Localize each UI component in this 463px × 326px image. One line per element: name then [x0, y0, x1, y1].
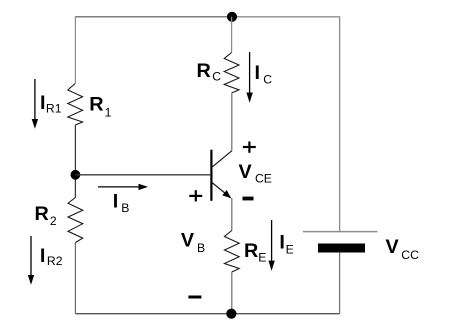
svg-text:R: R [197, 60, 211, 82]
label I_B [113, 191, 130, 215]
battery V_CC positive plate [303, 231, 378, 233]
svg-text:V: V [181, 229, 195, 251]
resistor RC [224, 53, 239, 94]
wire left rail lower (R2 to bottom rail) [74, 243, 76, 314]
transistor Q1 base bar [210, 150, 212, 201]
label V_CE [239, 161, 272, 186]
resistor RE [224, 231, 239, 273]
resistor R2 [68, 198, 83, 243]
junction dot base node [71, 170, 81, 180]
label minus at emitter [243, 197, 254, 201]
label I_R1 [40, 92, 62, 116]
junction dot top node [227, 12, 237, 22]
battery V_CC negative plate [318, 244, 365, 253]
label I_R2 [40, 245, 63, 268]
wire top rail right segment [232, 16, 340, 18]
transistor Q1 emitter lead with arrow [212, 183, 231, 198]
svg-text:CC: CC [401, 248, 419, 262]
label V_B [181, 229, 205, 255]
svg-text:I: I [279, 232, 285, 254]
current arrow I_R1 [32, 79, 38, 129]
wire middle rail top (top node to RC) [231, 17, 233, 53]
svg-text:CE: CE [255, 171, 272, 185]
label RC [197, 60, 222, 84]
label I_C [255, 62, 273, 87]
svg-text:R: R [89, 94, 103, 116]
resistor R1 [68, 84, 83, 126]
svg-text:R1: R1 [46, 101, 62, 115]
svg-text:2: 2 [50, 214, 57, 228]
transistor Q1 collector lead [212, 151, 231, 167]
wire base (node to transistor) [75, 174, 210, 176]
svg-text:V: V [239, 161, 253, 183]
label RE [244, 240, 266, 265]
wire emitter vertical [231, 198, 233, 231]
current arrow I_C [246, 52, 252, 103]
label R1 [89, 94, 111, 120]
label minus at bottom (V_B reference) [188, 296, 201, 299]
label R2 [35, 203, 57, 228]
svg-text:R: R [35, 203, 49, 225]
svg-text:I: I [40, 92, 46, 114]
label I_E [279, 232, 293, 257]
svg-text:B: B [197, 241, 205, 255]
wire right rail lower (battery to bottom rail) [339, 253, 341, 314]
wire top rail left segment [75, 16, 232, 18]
label V_CC [386, 236, 420, 262]
wire right rail upper (top rail to battery) [339, 16, 341, 231]
svg-text:E: E [258, 250, 266, 264]
current arrow I_R2 [28, 236, 34, 285]
svg-text:V: V [386, 236, 400, 258]
label plus at base [189, 190, 202, 201]
svg-text:B: B [121, 201, 129, 215]
svg-text:I: I [113, 191, 119, 213]
wire left rail middle (R1 to R2 through node) [74, 125, 76, 198]
svg-text:I: I [40, 245, 46, 267]
svg-text:C: C [263, 73, 272, 87]
wire middle rail bottom (RE to bottom rail) [231, 272, 233, 314]
label plus at collector [243, 142, 256, 153]
current arrow I_B [98, 184, 148, 190]
svg-text:1: 1 [105, 106, 112, 120]
svg-text:I: I [255, 62, 261, 84]
svg-text:E: E [286, 243, 294, 257]
wire left rail upper (top rail to R1) [74, 16, 76, 83]
svg-text:R: R [244, 240, 258, 262]
junction dot bottom node [226, 309, 236, 319]
wire bottom rail [75, 313, 339, 315]
wire collector vertical [231, 93, 233, 151]
current arrow I_E [268, 220, 274, 271]
svg-text:R2: R2 [47, 254, 63, 268]
svg-text:C: C [212, 70, 221, 84]
